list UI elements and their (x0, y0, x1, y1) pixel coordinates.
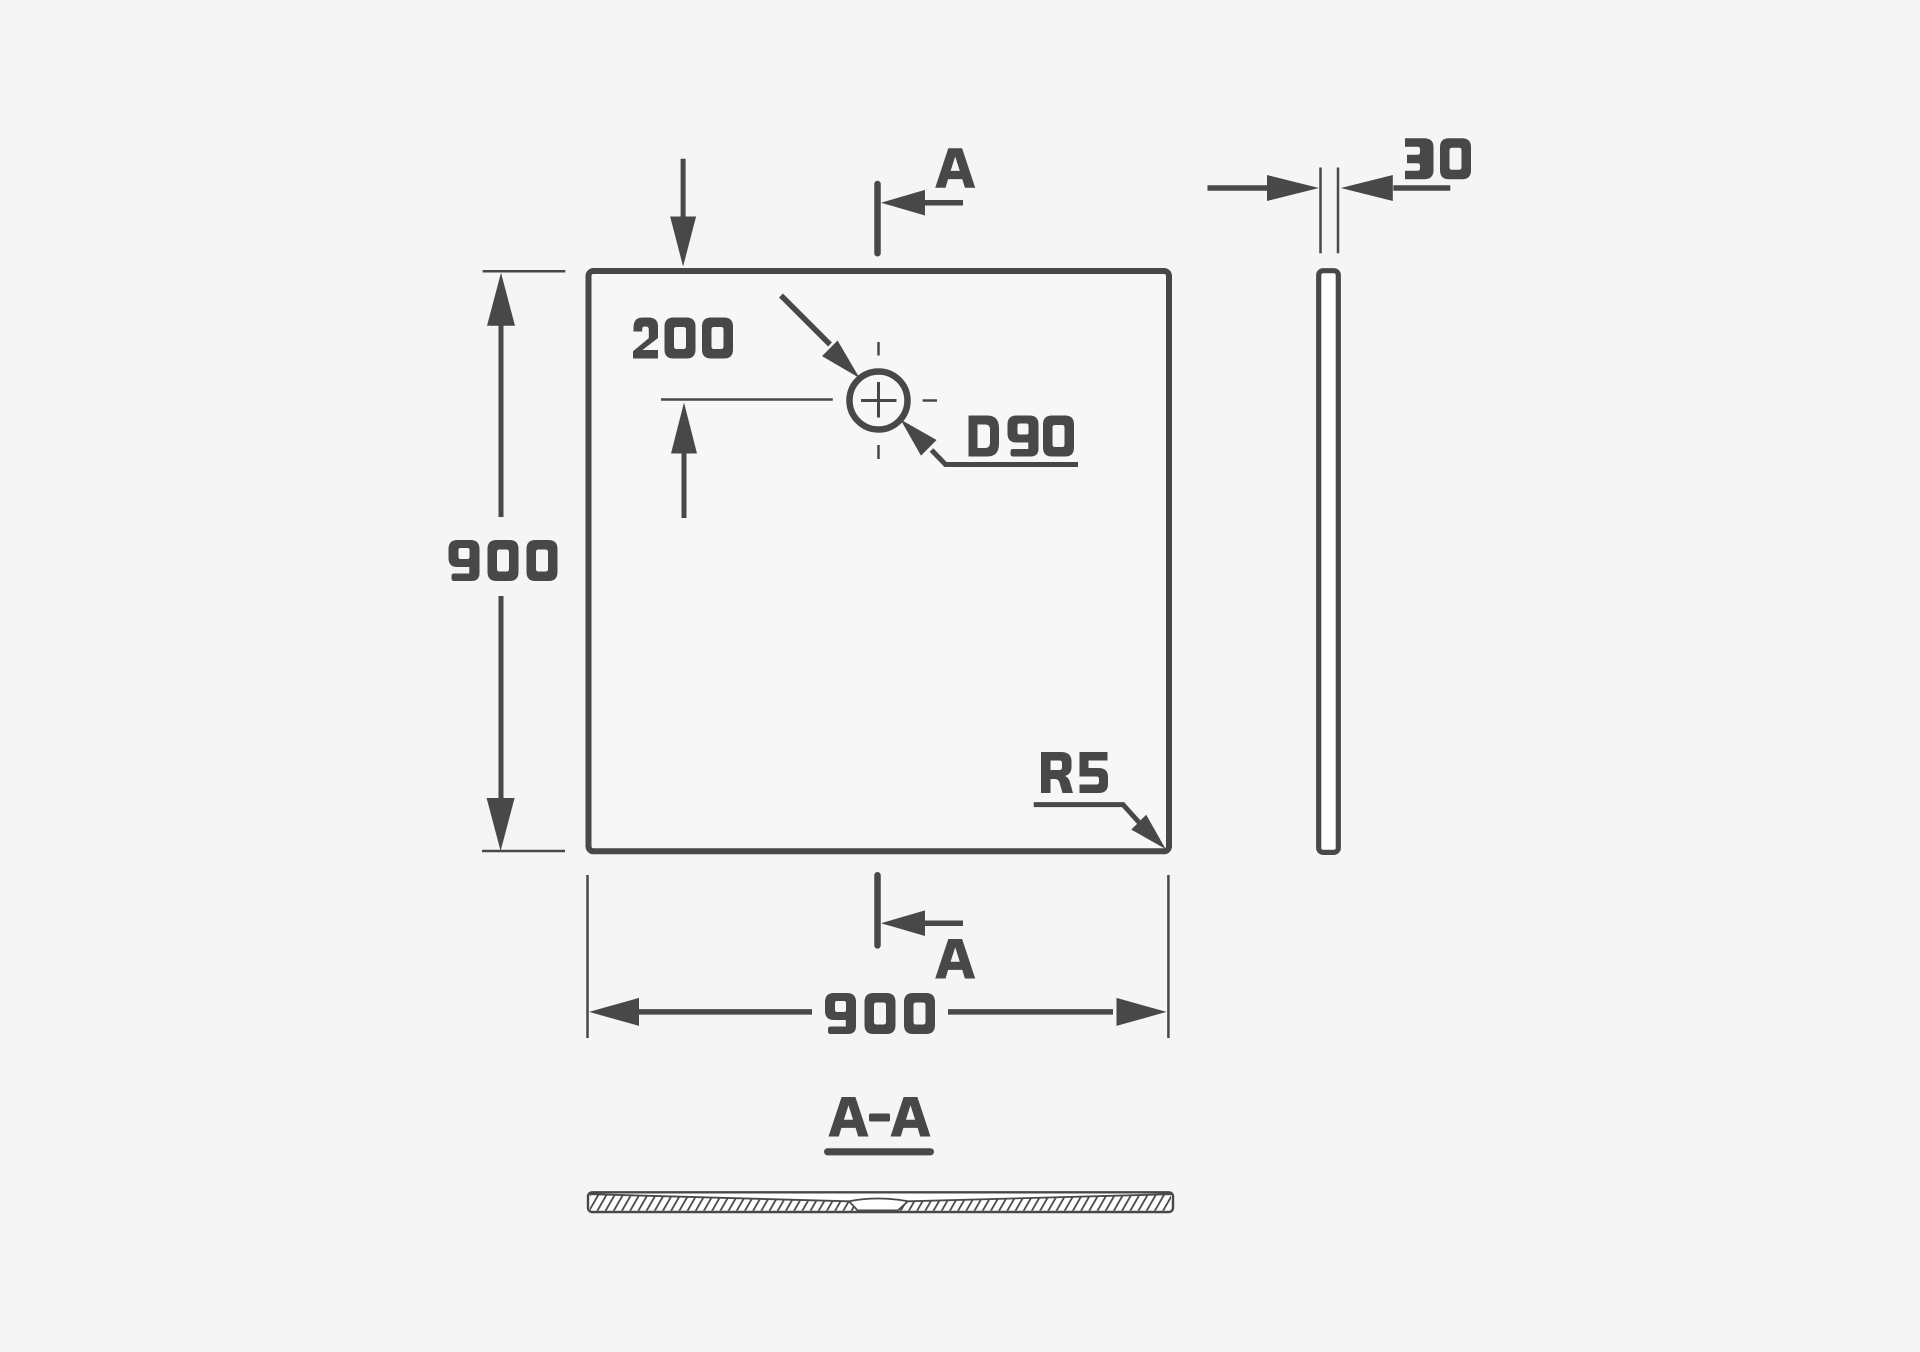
left dim arrow up (487, 273, 515, 326)
bottom dim label 900 (825, 993, 856, 1034)
section cut line top (874, 184, 881, 253)
bottom dim extension left (586, 875, 589, 1038)
left dim shaft lower (499, 596, 504, 800)
left dim arrow down (487, 798, 515, 851)
cross-section hatch left (590, 1194, 858, 1210)
crosshair (861, 399, 897, 402)
200 dim line at drain centerline (661, 398, 833, 401)
30 label (1405, 138, 1434, 179)
30 dim extension lines (1319, 168, 1322, 254)
drain hole D90 (850, 372, 908, 430)
200 dim up arrowhead (671, 403, 697, 454)
section label A top (935, 148, 975, 188)
cross-section floor slope lines (590, 1194, 849, 1201)
200 dim down arrow shaft (681, 159, 686, 220)
side view rectangle (1319, 271, 1339, 853)
R5 leader (1034, 805, 1140, 824)
A-A underline (824, 1148, 934, 1155)
R5 label (1041, 752, 1073, 793)
tray plan view square 900x900 (589, 271, 1170, 851)
left dim extension tick top (483, 270, 566, 273)
200 dim down arrowhead (670, 217, 696, 267)
drain leader arrow (781, 296, 830, 345)
200 dim label (633, 318, 658, 359)
bottom dim arrow left (589, 998, 639, 1026)
200 dim up arrow shaft (682, 452, 687, 518)
section title A-A (829, 1097, 869, 1137)
left dim label 900 (449, 540, 480, 581)
left dim extension tick bottom (482, 850, 565, 853)
section label A bottom (935, 939, 975, 979)
drain recess in section (849, 1199, 908, 1211)
D90 leader arrow (901, 420, 937, 456)
section cut line bottom (874, 875, 881, 945)
bottom dim arrow right (1117, 998, 1167, 1026)
D90 label (969, 416, 1000, 457)
cross-section outline (588, 1192, 1173, 1212)
bottom dim extension right (1167, 875, 1170, 1038)
30 dim right arrow+shaft (1341, 175, 1393, 201)
30 dim left shaft+arrow (1208, 185, 1268, 191)
section arrow bottom (881, 910, 925, 936)
cross-section hatch right (898, 1194, 1171, 1210)
left dim shaft upper (499, 324, 504, 517)
section arrow top (881, 190, 925, 216)
